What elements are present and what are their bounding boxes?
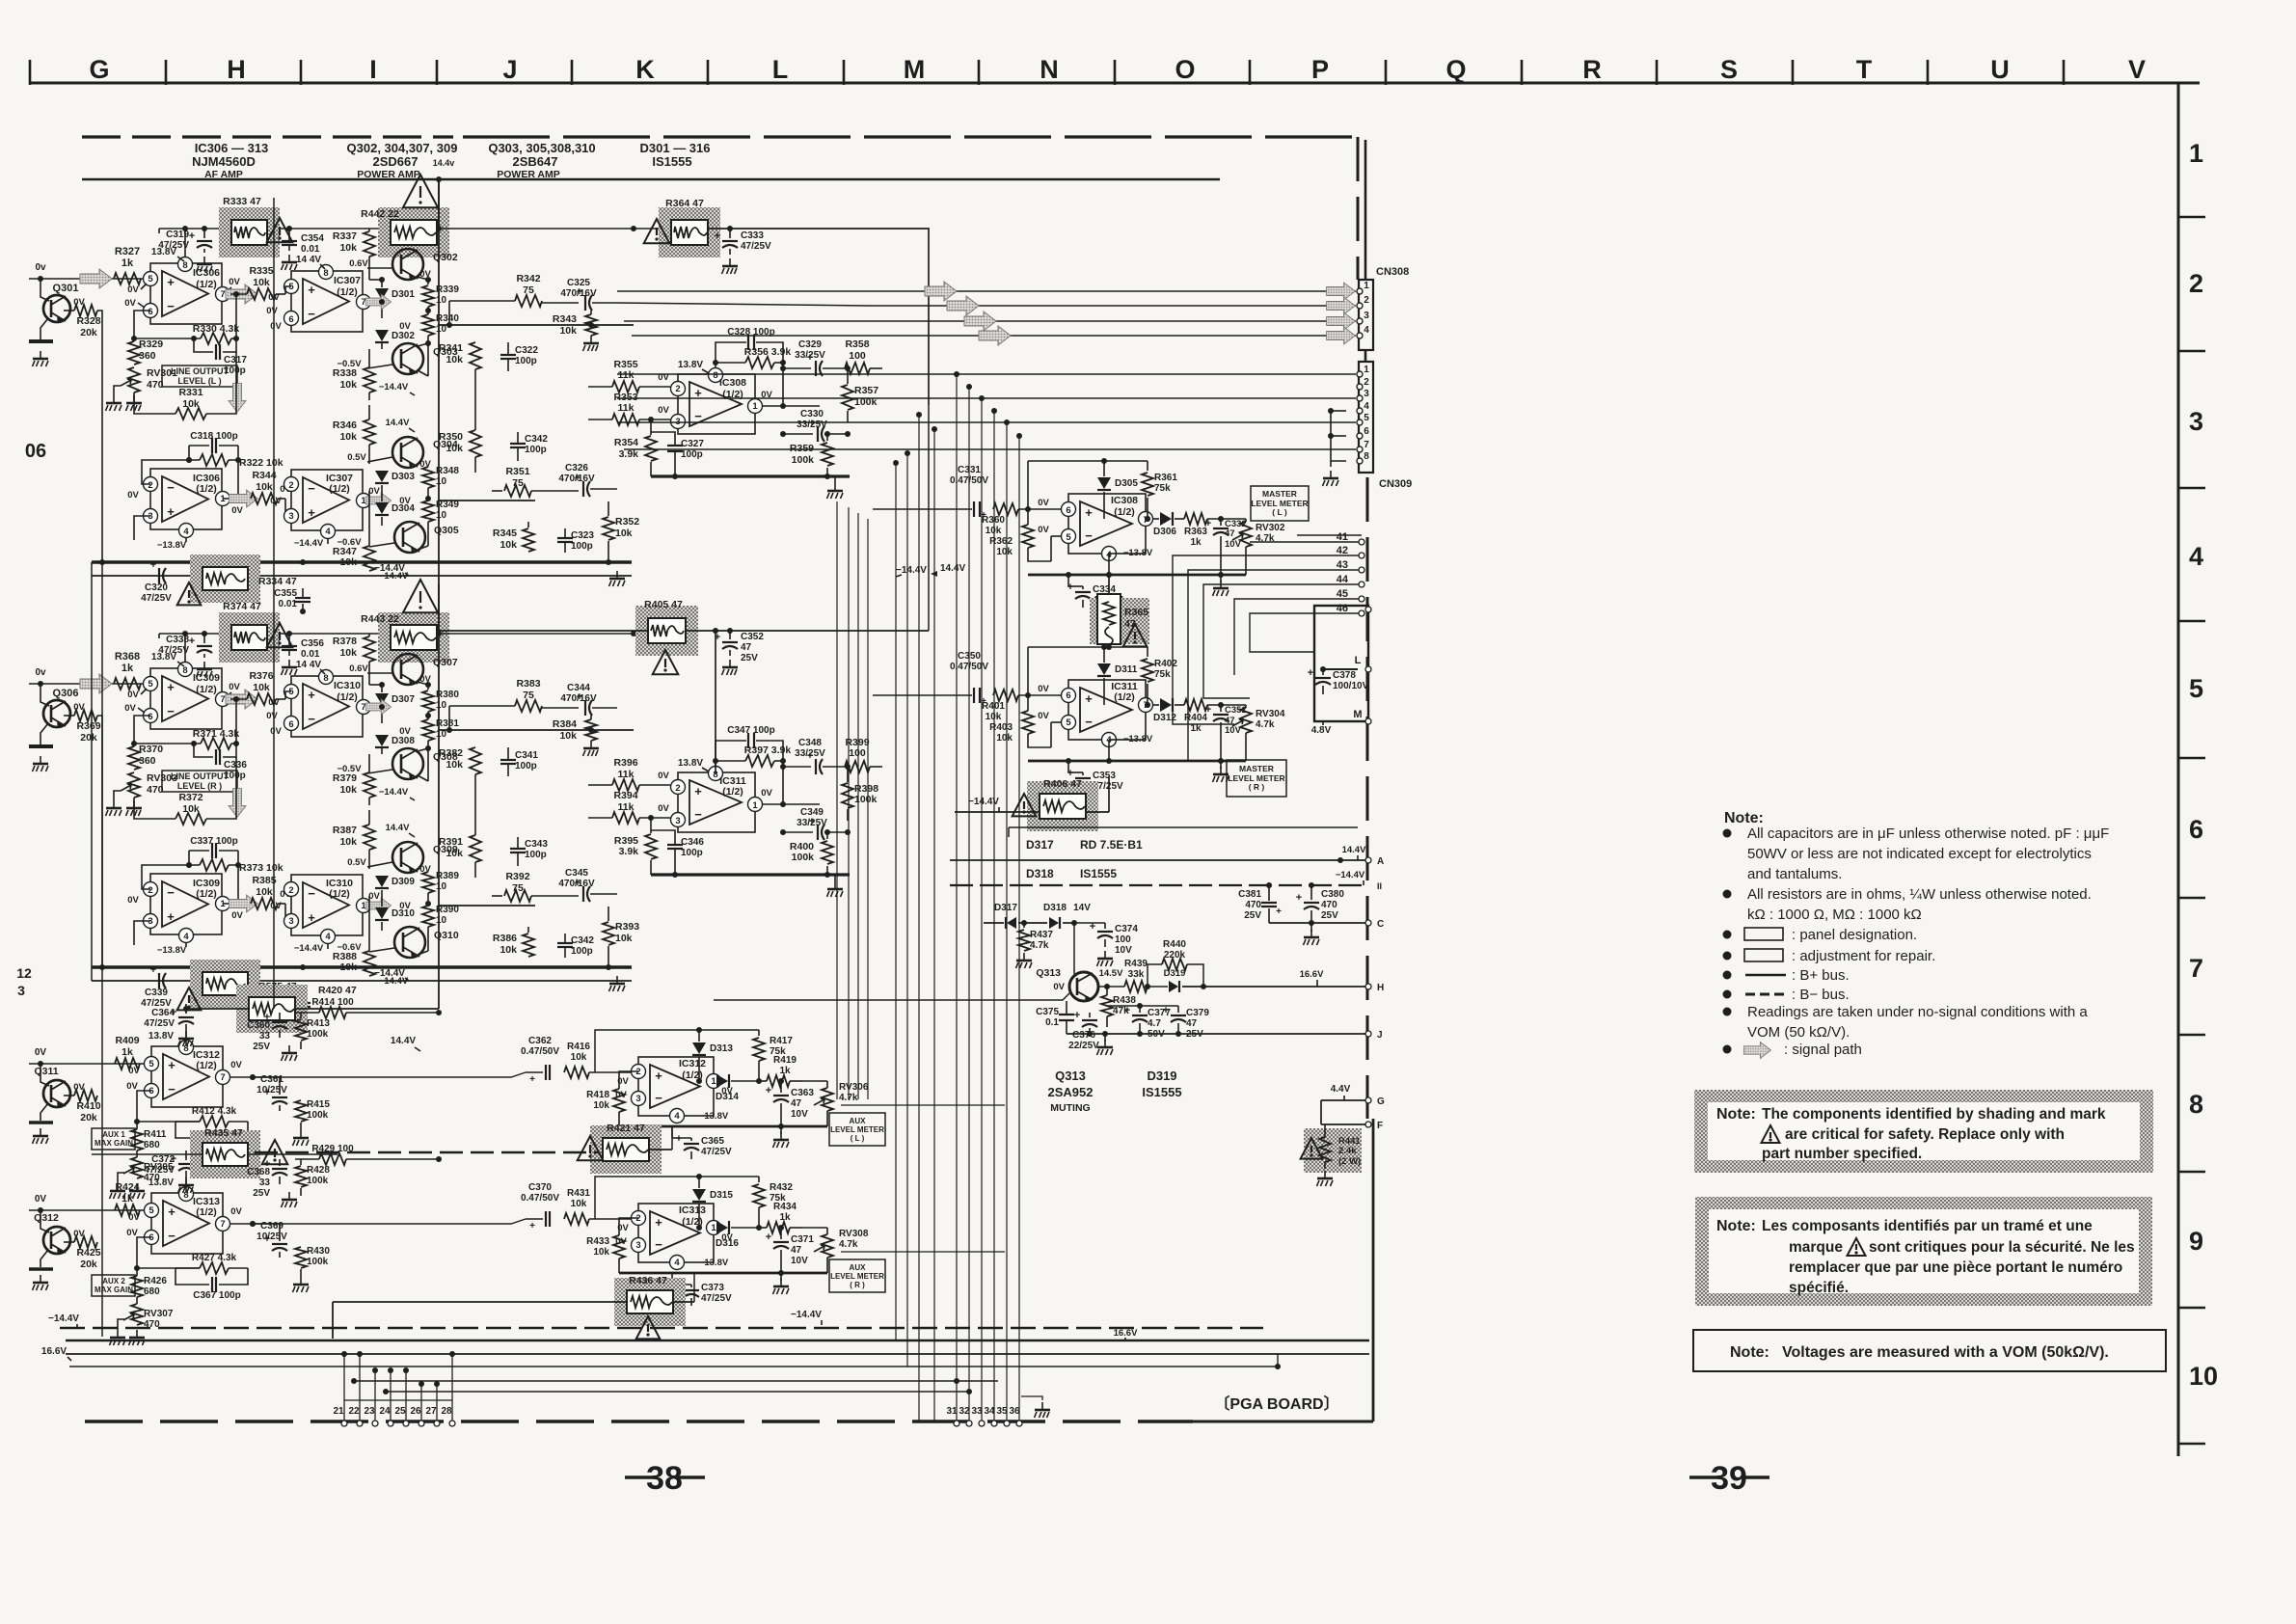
resistor R371 4.3k bbox=[201, 738, 231, 749]
svg-text:2: 2 bbox=[2189, 269, 2203, 298]
svg-text:0.47/50V: 0.47/50V bbox=[521, 1046, 559, 1057]
svg-text:10k: 10k bbox=[339, 242, 357, 254]
svg-text:8: 8 bbox=[182, 665, 187, 676]
meter box AUXL bbox=[829, 1113, 885, 1146]
svg-text:The components identified by s: The components identified by shading and… bbox=[1762, 1106, 2106, 1123]
capacitor C353 47/25V bbox=[1075, 777, 1091, 779]
svg-text:+: + bbox=[715, 230, 720, 242]
diode D306 out bbox=[1160, 512, 1172, 526]
svg-text:R371 4.3k: R371 4.3k bbox=[193, 728, 240, 740]
svg-text:marque: marque bbox=[1789, 1239, 1843, 1256]
svg-text:IC312: IC312 bbox=[679, 1058, 706, 1069]
svg-text:IC308: IC308 bbox=[1111, 495, 1138, 506]
capacitor C357 0.01 bbox=[295, 1002, 311, 1004]
svg-text:10k: 10k bbox=[615, 933, 633, 944]
svg-text:4: 4 bbox=[674, 1111, 680, 1122]
wiper line RV306 bbox=[841, 1104, 1005, 1106]
wire pin7 fb bbox=[235, 294, 237, 338]
svg-text:F: F bbox=[1377, 1121, 1383, 1131]
capacitor C377 4.7 50V bbox=[1132, 1015, 1148, 1016]
wire riser to IC311 pin8 bbox=[715, 631, 716, 773]
resistor R364 47 fusible bbox=[659, 207, 720, 257]
svg-text:34: 34 bbox=[984, 1406, 995, 1417]
svg-text:and tantalums.: and tantalums. bbox=[1747, 866, 1842, 882]
pin 8 IC307 bbox=[319, 265, 334, 280]
svg-text:MUTING: MUTING bbox=[1050, 1102, 1090, 1114]
resistor R381 10 bbox=[422, 719, 434, 741]
wire pin8 to top rail bbox=[184, 634, 186, 662]
svg-text:10V: 10V bbox=[791, 1109, 808, 1120]
resistor R369 20k bbox=[74, 710, 97, 721]
master level meter R box bbox=[1227, 760, 1286, 797]
svg-text:14.4V: 14.4V bbox=[386, 418, 410, 428]
pin 1 IC309b bbox=[216, 897, 230, 911]
svg-text:4: 4 bbox=[325, 932, 331, 942]
signal arrow down fb bbox=[229, 384, 246, 413]
wire pin7 opampB to stack bbox=[371, 301, 382, 303]
svg-text:D301: D301 bbox=[392, 289, 415, 300]
pin 7 IC306 bbox=[216, 287, 230, 302]
svg-text:0V: 0V bbox=[127, 490, 139, 501]
resistor R360 10k bbox=[993, 503, 1018, 515]
svg-text:R391: R391 bbox=[439, 836, 463, 848]
svg-text:47/25V: 47/25V bbox=[158, 240, 189, 251]
svg-text:R360: R360 bbox=[982, 515, 1005, 526]
svg-text:R365: R365 bbox=[1124, 607, 1148, 618]
pin 6 IC311m bbox=[1062, 689, 1076, 703]
svg-text:10k: 10k bbox=[339, 431, 357, 443]
svg-text:100p: 100p bbox=[525, 445, 547, 455]
svg-text:7: 7 bbox=[220, 1072, 225, 1083]
warning triangle above R443 bbox=[403, 580, 438, 612]
pin 6 IC306 bbox=[144, 304, 158, 318]
wire k out bbox=[782, 363, 784, 406]
heavy rail k bbox=[651, 873, 850, 876]
pin 7 IC307 bbox=[357, 295, 371, 310]
svg-text:(1/2): (1/2) bbox=[196, 1206, 217, 1218]
svg-text:LINE OUTPUT: LINE OUTPUT bbox=[171, 366, 230, 376]
svg-text:J: J bbox=[1377, 1030, 1383, 1041]
svg-text:100k: 100k bbox=[307, 1257, 329, 1267]
svg-text:R414 100: R414 100 bbox=[311, 997, 354, 1008]
resistor R441 2.4k fusible vertical bbox=[1304, 1128, 1362, 1173]
svg-text:−13.8V: −13.8V bbox=[699, 1111, 729, 1122]
resistor R347 10k bbox=[364, 546, 375, 571]
svg-text:47: 47 bbox=[791, 1245, 802, 1256]
capacitor C346 100p bbox=[667, 844, 683, 846]
svg-text:−: − bbox=[168, 1082, 176, 1096]
svg-text:Note:: Note: bbox=[1724, 810, 1764, 826]
note bullet signal path bbox=[1723, 1045, 1732, 1054]
capacitor C318 100p bbox=[211, 438, 213, 453]
wire H rail bbox=[1254, 986, 1367, 988]
wire J rail bbox=[1067, 1033, 1367, 1035]
svg-text:C378: C378 bbox=[1333, 670, 1356, 681]
capacitor C343 100p bbox=[510, 848, 526, 850]
capacitor C331 0.47/50V bbox=[973, 501, 975, 517]
svg-text:R382: R382 bbox=[439, 747, 463, 759]
diode D314 bbox=[716, 1074, 728, 1088]
svg-text:AUX 1: AUX 1 bbox=[102, 1130, 125, 1139]
resistor R352 10k bbox=[603, 517, 614, 540]
resistor R392 75 bbox=[504, 890, 531, 902]
pin7 IC313x bbox=[216, 1217, 230, 1232]
svg-text:D307: D307 bbox=[392, 694, 415, 705]
svg-text:10k: 10k bbox=[446, 848, 463, 859]
svg-text:10/25V: 10/25V bbox=[257, 1085, 287, 1096]
wire input Q312 bbox=[29, 1209, 151, 1211]
svg-text:R359: R359 bbox=[790, 443, 814, 454]
top ruler ticks bbox=[29, 60, 32, 85]
svg-text:100k: 100k bbox=[792, 454, 815, 466]
trimmer RV304 4.7k bbox=[1240, 708, 1252, 733]
svg-text:R331: R331 bbox=[178, 387, 203, 398]
svg-text:: signal path: : signal path bbox=[1784, 1042, 1862, 1058]
svg-text:10V: 10V bbox=[1115, 945, 1132, 956]
resistor R417 75k bbox=[753, 1038, 765, 1061]
svg-text:M: M bbox=[904, 55, 926, 84]
wire lower stack bbox=[368, 810, 370, 825]
svg-text:25V: 25V bbox=[741, 653, 758, 663]
svg-text:Q301: Q301 bbox=[53, 283, 79, 294]
svg-text:R364 47: R364 47 bbox=[665, 198, 704, 209]
transistor Q306 bbox=[43, 700, 70, 727]
svg-text:47/25V: 47/25V bbox=[741, 241, 771, 252]
svg-text:2: 2 bbox=[675, 783, 680, 794]
svg-text:remplacer que par une pièce po: remplacer que par une pièce portant le n… bbox=[1789, 1259, 2122, 1276]
wire CN308 riser top bbox=[1364, 140, 1367, 280]
svg-text:R329: R329 bbox=[139, 338, 163, 350]
pin 3 IC309b bbox=[144, 914, 158, 929]
svg-text:K: K bbox=[635, 55, 655, 84]
svg-text:sont critiques pour la sécurit: sont critiques pour la sécurité. Ne les bbox=[1869, 1239, 2135, 1256]
svg-text:31: 31 bbox=[946, 1406, 958, 1417]
svg-text:10V: 10V bbox=[791, 1256, 808, 1266]
svg-text:−14.4V: −14.4V bbox=[294, 943, 324, 954]
resistor R435 47 fusible bbox=[190, 1130, 260, 1178]
svg-text:R351: R351 bbox=[505, 466, 529, 477]
heavy rail k bbox=[651, 474, 850, 477]
svg-text:100p: 100p bbox=[681, 848, 703, 858]
svg-text:0V: 0V bbox=[419, 459, 431, 470]
svg-text:13.8V: 13.8V bbox=[678, 758, 703, 769]
svg-text:C336: C336 bbox=[224, 760, 247, 771]
svg-text:470: 470 bbox=[1321, 900, 1337, 910]
resistor R413 100k bbox=[295, 1019, 307, 1041]
resistor R426 680 bbox=[131, 1276, 143, 1297]
svg-text:+: + bbox=[766, 1085, 771, 1096]
svg-text:7: 7 bbox=[1364, 440, 1369, 450]
svg-text:(1/2): (1/2) bbox=[337, 286, 358, 298]
svg-text:7: 7 bbox=[220, 694, 225, 705]
svg-text:14.4v: 14.4v bbox=[433, 158, 455, 168]
resistor R384 10k bbox=[585, 719, 597, 741]
svg-text:D309: D309 bbox=[392, 877, 415, 887]
diode D302 bbox=[375, 330, 389, 341]
svg-text:33: 33 bbox=[259, 1177, 271, 1188]
wire Q302 emitter bbox=[418, 682, 428, 685]
resistor R398 100k bbox=[842, 783, 853, 808]
svg-text:7: 7 bbox=[220, 289, 225, 300]
grounds RV305 bbox=[136, 1183, 138, 1191]
pin5 IC313x bbox=[145, 1204, 159, 1218]
svg-text:NJM4560D: NJM4560D bbox=[192, 154, 256, 169]
supply riser 14.4V bbox=[438, 179, 440, 229]
svg-text:Q313: Q313 bbox=[1036, 967, 1061, 979]
svg-text:0V: 0V bbox=[270, 496, 282, 506]
svg-text:POWER AMP: POWER AMP bbox=[497, 169, 560, 180]
svg-text:C319: C319 bbox=[166, 230, 189, 240]
svg-text:10k: 10k bbox=[182, 803, 200, 815]
wire rail R442 to R364 area bbox=[437, 228, 671, 230]
resistor R354 3.9k bbox=[645, 436, 657, 461]
warning triangle R406 bbox=[1013, 794, 1037, 816]
svg-text:R401: R401 bbox=[982, 701, 1005, 712]
resistor R365 47 fusible vertical bbox=[1090, 598, 1149, 644]
svg-text:2: 2 bbox=[288, 480, 293, 491]
svg-text:1k: 1k bbox=[1190, 537, 1202, 548]
svg-text:0V: 0V bbox=[124, 703, 136, 714]
pin6 IC312x bbox=[145, 1084, 159, 1098]
svg-text:100: 100 bbox=[849, 350, 866, 362]
svg-text:+: + bbox=[308, 688, 315, 702]
svg-text:10k: 10k bbox=[446, 759, 463, 771]
svg-text:−: − bbox=[308, 481, 315, 496]
svg-text:680: 680 bbox=[144, 1140, 160, 1150]
pin 3 IC308 bbox=[671, 415, 686, 429]
wire pin2 net bbox=[142, 865, 189, 889]
svg-text:C317: C317 bbox=[224, 355, 247, 365]
svg-text:R405 47: R405 47 bbox=[644, 599, 683, 610]
capacitor C360 33 25V bbox=[272, 1021, 287, 1023]
connector L M box bbox=[1314, 606, 1368, 721]
svg-text:0V: 0V bbox=[761, 788, 772, 798]
svg-text:C381: C381 bbox=[1238, 889, 1261, 900]
capacitor C352 47/25V bbox=[722, 641, 738, 643]
svg-text:IS1555: IS1555 bbox=[1142, 1085, 1181, 1099]
svg-text:−14.4V: −14.4V bbox=[48, 1313, 79, 1324]
resistor R394 11k bbox=[612, 812, 639, 824]
top ruler line bbox=[29, 82, 2200, 85]
svg-text:LEVEL (L ): LEVEL (L ) bbox=[177, 376, 221, 386]
svg-text:C329: C329 bbox=[798, 339, 822, 350]
trimmer RV302 4.7k bbox=[1240, 522, 1252, 547]
pin2 IC312am bbox=[632, 1065, 646, 1079]
capacitor C370 0.47/50V bbox=[545, 1211, 547, 1227]
pin 7 IC308m bbox=[1139, 512, 1153, 527]
resistor R397 3.9k bbox=[745, 755, 774, 767]
svg-text:22/25V: 22/25V bbox=[1068, 1041, 1099, 1051]
capacitor C355 0.01 bbox=[295, 597, 311, 599]
capacitor C330 33/25V bbox=[817, 426, 819, 442]
ground auxmeter bbox=[780, 1279, 782, 1286]
diode D317 symbol bbox=[1007, 917, 1016, 929]
svg-text:+: + bbox=[655, 1069, 662, 1083]
right ruler ticks bbox=[2178, 216, 2205, 219]
pin2 IC313am bbox=[632, 1211, 646, 1226]
svg-text:Q312: Q312 bbox=[34, 1212, 59, 1224]
svg-text:0.01: 0.01 bbox=[301, 244, 320, 255]
svg-text:8: 8 bbox=[2189, 1090, 2203, 1119]
ground under C354 bbox=[288, 255, 290, 262]
capacitor C322 100p bbox=[500, 354, 516, 356]
svg-text:360: 360 bbox=[139, 755, 156, 767]
svg-text:0V: 0V bbox=[399, 726, 411, 737]
svg-text:D301 — 316: D301 — 316 bbox=[640, 141, 711, 155]
svg-text:360: 360 bbox=[139, 350, 156, 362]
svg-text:9: 9 bbox=[2189, 1227, 2203, 1256]
svg-text:C: C bbox=[1377, 919, 1384, 930]
wire to CN309 pin3 bbox=[617, 397, 1356, 399]
svg-text:47/25V: 47/25V bbox=[144, 1018, 175, 1029]
svg-text:43: 43 bbox=[1337, 559, 1348, 571]
svg-text:470/16V: 470/16V bbox=[560, 693, 597, 704]
svg-text:0V: 0V bbox=[1038, 525, 1049, 535]
resistor R403 10k bbox=[1022, 711, 1034, 734]
svg-text:Note:: Note: bbox=[1730, 1344, 1769, 1361]
svg-text:10k: 10k bbox=[339, 836, 357, 848]
svg-text:Q310: Q310 bbox=[434, 930, 459, 941]
resistor R373 10k bbox=[200, 859, 229, 871]
svg-text:R406 47: R406 47 bbox=[1043, 778, 1082, 790]
wire to CN308 pin4 bbox=[632, 335, 1356, 337]
svg-text:0.5V: 0.5V bbox=[347, 857, 366, 868]
wire output row upper bbox=[438, 729, 634, 731]
svg-text:3.9k: 3.9k bbox=[619, 846, 639, 857]
op-amp IC313 (1/2) aux bbox=[151, 1193, 223, 1254]
capacitor C341 100p bbox=[500, 759, 516, 761]
svg-text:10k: 10k bbox=[615, 528, 633, 539]
svg-text:+: + bbox=[1308, 667, 1313, 679]
svg-text:14.5V: 14.5V bbox=[1099, 968, 1123, 979]
svg-text:C379: C379 bbox=[1186, 1008, 1209, 1018]
svg-text:0V: 0V bbox=[127, 895, 139, 906]
svg-text:R330 4.3k: R330 4.3k bbox=[193, 323, 240, 335]
page number 39 bbox=[1689, 1475, 1718, 1478]
svg-text:2: 2 bbox=[1364, 295, 1369, 306]
resistor R415 100k bbox=[295, 1100, 307, 1122]
svg-text:4: 4 bbox=[674, 1258, 680, 1268]
svg-text:R387: R387 bbox=[333, 825, 357, 836]
svg-text:470/16V: 470/16V bbox=[558, 879, 595, 889]
svg-text:R433: R433 bbox=[586, 1236, 609, 1247]
svg-text:LEVEL METER: LEVEL METER bbox=[830, 1125, 884, 1134]
svg-text:are critical for safety.: are critical for safety. Replace only wi… bbox=[1785, 1126, 2065, 1143]
svg-text:R368: R368 bbox=[115, 651, 140, 663]
svg-text:+: + bbox=[150, 964, 156, 976]
svg-text:(1/2): (1/2) bbox=[196, 1060, 217, 1071]
wire CN308-CN309 link bbox=[1364, 350, 1367, 362]
resistor R349 10 bbox=[422, 501, 434, 522]
svg-text:R322 10k: R322 10k bbox=[239, 457, 284, 469]
capacitor C362 0.47/50V bbox=[545, 1065, 547, 1080]
svg-text:24: 24 bbox=[379, 1406, 391, 1417]
svg-text:10k: 10k bbox=[986, 526, 1002, 536]
svg-text:MASTER: MASTER bbox=[1262, 489, 1297, 499]
svg-text:33/25V: 33/25V bbox=[795, 350, 825, 361]
svg-text:D317: D317 bbox=[1026, 838, 1054, 852]
svg-text:10k: 10k bbox=[339, 379, 357, 391]
svg-text:R338: R338 bbox=[333, 367, 357, 379]
pin 4 IC310b bbox=[321, 930, 336, 944]
bus bottom 16.6V bbox=[66, 1353, 1369, 1355]
capacitor C326 470/16V bbox=[582, 481, 584, 497]
ground C374 bbox=[1104, 951, 1106, 959]
svg-text:25V: 25V bbox=[1244, 910, 1261, 921]
svg-text:IC310: IC310 bbox=[334, 680, 361, 691]
resistor R388 10k bbox=[364, 951, 375, 976]
capacitor C354 0.01 bbox=[282, 240, 297, 242]
svg-text:10k: 10k bbox=[446, 354, 463, 365]
svg-text:1k: 1k bbox=[122, 1193, 133, 1204]
svg-text:MAX GAIN: MAX GAIN bbox=[95, 1139, 133, 1148]
svg-text:3: 3 bbox=[1364, 389, 1369, 399]
svg-text:C345: C345 bbox=[565, 868, 588, 879]
wiper line RV308 bbox=[841, 1251, 1005, 1253]
ground R441 bbox=[1324, 1171, 1326, 1178]
svg-text:0v: 0v bbox=[35, 667, 46, 678]
wire stack lower bbox=[368, 798, 370, 805]
wire pin6 down bbox=[134, 311, 150, 338]
svg-text:10k: 10k bbox=[446, 443, 463, 454]
page number 38 bbox=[625, 1475, 654, 1478]
warning triangle R334 bbox=[177, 582, 202, 605]
svg-text:11k: 11k bbox=[618, 369, 635, 381]
capacitor C323 100p bbox=[557, 537, 573, 539]
pin 5 IC310 bbox=[284, 685, 299, 699]
resistor R378 10k bbox=[364, 636, 375, 662]
svg-text:0V: 0V bbox=[266, 711, 278, 721]
capacitor C372 47/25V bbox=[178, 1163, 194, 1165]
svg-text:1k: 1k bbox=[122, 663, 134, 674]
svg-text:R356 3.9k: R356 3.9k bbox=[744, 346, 792, 358]
wire aux1 rails bbox=[295, 1008, 439, 1010]
svg-text:10k: 10k bbox=[996, 733, 1013, 744]
pin 3 IC306b bbox=[144, 509, 158, 524]
svg-text:+: + bbox=[189, 230, 195, 242]
svg-text:10k: 10k bbox=[986, 712, 1002, 722]
diode D312 out bbox=[1160, 698, 1172, 712]
resistor R363 1k bbox=[1184, 513, 1207, 525]
svg-text:10k: 10k bbox=[253, 682, 270, 693]
svg-text:R370: R370 bbox=[139, 744, 163, 755]
resistor R424 1k bbox=[115, 1204, 140, 1216]
svg-text:10: 10 bbox=[436, 700, 447, 711]
svg-text:〔PGA BOARD〕: 〔PGA BOARD〕 bbox=[1214, 1395, 1338, 1413]
svg-text:0V: 0V bbox=[231, 910, 243, 921]
wire mid node bbox=[427, 712, 429, 719]
svg-text:R430: R430 bbox=[307, 1246, 330, 1257]
svg-text:10k: 10k bbox=[253, 277, 270, 288]
wire output row upper bbox=[438, 324, 634, 326]
svg-text:+: + bbox=[308, 505, 315, 520]
svg-text:D319: D319 bbox=[1147, 1069, 1176, 1083]
svg-text:−13.8V: −13.8V bbox=[157, 540, 187, 551]
svg-text:R442 22: R442 22 bbox=[361, 208, 399, 220]
svg-text:D315: D315 bbox=[710, 1190, 733, 1201]
svg-text:R417: R417 bbox=[770, 1036, 793, 1046]
svg-text:2: 2 bbox=[148, 885, 152, 896]
svg-text:5: 5 bbox=[1066, 532, 1071, 543]
svg-text:25V: 25V bbox=[253, 1188, 270, 1199]
svg-text:C373: C373 bbox=[701, 1283, 724, 1293]
resistor R331 10k bbox=[176, 408, 206, 420]
svg-text:20k: 20k bbox=[80, 1112, 97, 1123]
ground C364 bbox=[185, 1031, 187, 1039]
svg-text:+: + bbox=[167, 504, 175, 519]
wire to CN308 pin3 bbox=[624, 320, 1356, 322]
svg-text:8: 8 bbox=[182, 260, 187, 271]
